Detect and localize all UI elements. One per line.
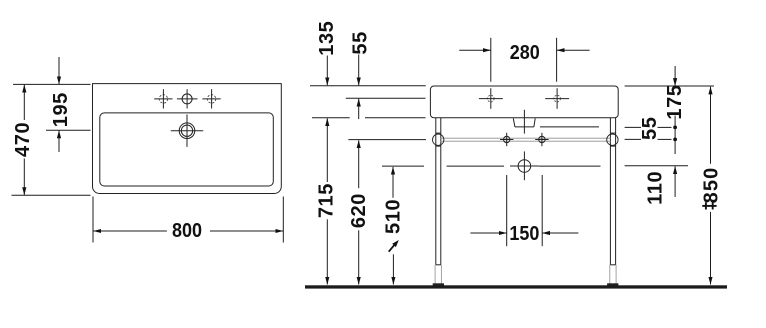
- extension line bottom (470 bottom): [12, 194, 91, 196]
- svg-text:715: 715: [316, 183, 338, 218]
- drain (top view): [171, 115, 203, 147]
- svg-text:850: 850: [700, 167, 722, 204]
- svg-text:55: 55: [349, 31, 371, 54]
- dimension 135: [316, 21, 338, 86]
- extension line right: rail level (55 lower): [625, 138, 641, 140]
- extension line faucet level: [346, 97, 426, 99]
- dimension 850 (adjustable): [700, 87, 722, 285]
- svg-text:135: 135: [316, 21, 338, 56]
- towel rail: [441, 138, 611, 141]
- extension line basin bottom level: [312, 117, 350, 119]
- svg-text:150: 150: [509, 223, 539, 245]
- floor: [305, 285, 727, 288]
- dimension 715: [316, 118, 338, 284]
- right leg: [607, 118, 618, 286]
- left leg collar: [436, 133, 441, 146]
- svg-text:620: 620: [348, 193, 370, 228]
- drain trap (front view): [513, 118, 535, 127]
- dimension 110: [644, 166, 675, 205]
- dimension 510: [383, 167, 405, 285]
- left leg: [433, 118, 444, 286]
- svg-text:510: 510: [383, 199, 405, 234]
- extension line top-left (470/195 top): [13, 83, 91, 85]
- basin inner bowl (top view): [100, 113, 273, 186]
- faucet hole right (dashed, top view): [202, 89, 220, 108]
- svg-text:280: 280: [510, 42, 540, 64]
- rail fixing cross left: [500, 133, 513, 146]
- faucet hole left (dashed, top view): [154, 89, 172, 108]
- dimension 150: [470, 175, 578, 246]
- extension line basin top level (left side): [310, 85, 426, 87]
- dimension 470: [12, 85, 34, 195]
- svg-text:175: 175: [664, 84, 686, 119]
- dimension 195: [50, 57, 72, 152]
- faucet hole left (front view): [479, 88, 503, 109]
- lower fixing cross: [510, 151, 539, 180]
- extension line drain level (195 bottom): [46, 129, 91, 131]
- faucet hole right (front view): [545, 88, 569, 109]
- extension line right: trap bottom level (55 upper): [625, 126, 641, 128]
- dimension 175: [664, 66, 686, 120]
- extension line lower fixing level mid: [447, 165, 504, 167]
- extension line lower fixing level right of cross: [539, 165, 601, 167]
- basin outer rim (top view): [93, 84, 282, 194]
- right leg collar: [610, 133, 615, 146]
- rail fixing cross right: [535, 133, 548, 146]
- extension lines for 800: [92, 197, 94, 243]
- faucet hole middle (top view): [177, 89, 198, 108]
- extension line trap bottom level: [540, 126, 599, 128]
- dimension 55 (top left): [349, 31, 371, 119]
- basin body (front view): [430, 86, 618, 118]
- dimension 55 (right) with dots: [639, 116, 677, 155]
- svg-text:470: 470: [12, 122, 34, 157]
- dimension 800: [94, 220, 284, 242]
- svg-text:800: 800: [172, 220, 202, 242]
- rail end circle right: [607, 134, 618, 145]
- svg-text:110: 110: [644, 171, 666, 205]
- dimension 620: [348, 140, 370, 284]
- svg-text:55: 55: [639, 117, 661, 140]
- extension line rail level: [348, 139, 426, 141]
- trap centerline: [523, 110, 525, 134]
- rail end circle left: [433, 134, 444, 145]
- extension line lower fixing level left: [382, 165, 424, 167]
- extension line right: basin top level: [625, 85, 714, 87]
- svg-text:195: 195: [50, 92, 72, 127]
- extension line right: lower fixing level: [625, 165, 688, 167]
- dimension 280: [459, 38, 589, 82]
